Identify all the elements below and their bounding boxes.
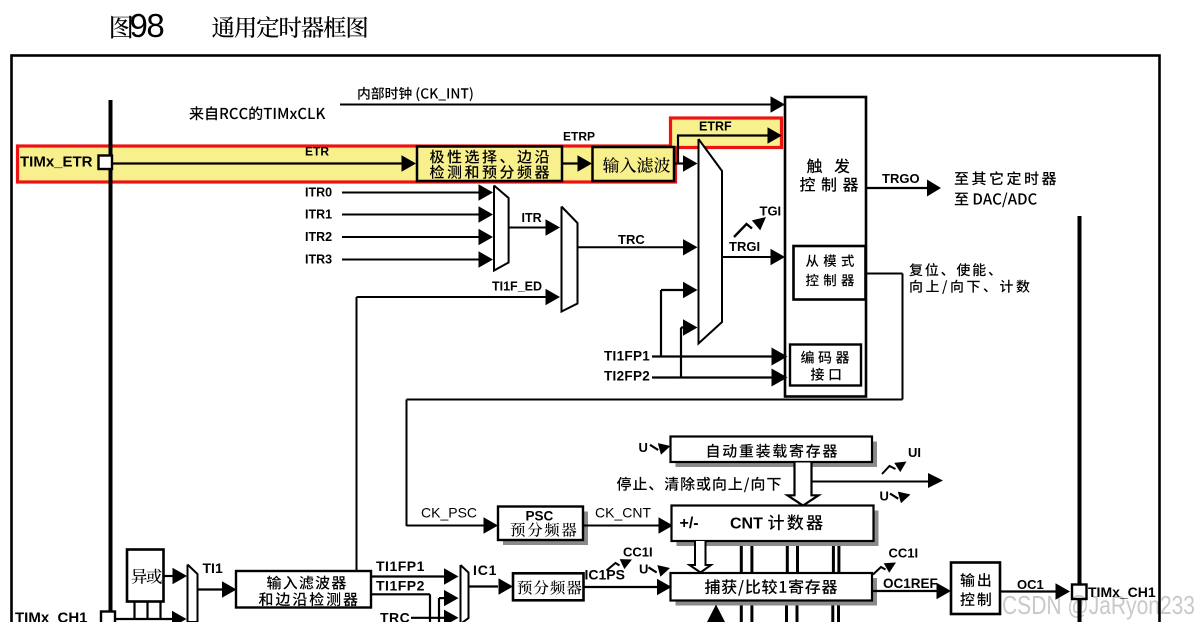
- wire filter output to trigger mux: [674, 162, 684, 164]
- wire IC1: [469, 585, 499, 587]
- svg-text:IC1PS: IC1PS: [585, 567, 625, 583]
- block CNT counter: [672, 506, 874, 542]
- text 计数器(CNT): [768, 514, 823, 530]
- mux IC1 selector: [461, 565, 469, 622]
- wire ETRP: [562, 162, 580, 164]
- pin pad TIMx_ETR: [99, 156, 113, 170]
- block output control 输出控制: [951, 563, 1000, 615]
- svg-text:TRGO: TRGO: [882, 171, 920, 186]
- svg-text:U: U: [639, 440, 648, 455]
- arrowhead TI2FP2 into trigger mux: [683, 319, 698, 335]
- svg-text:ITR3: ITR3: [305, 253, 332, 267]
- wire IC1PS: [584, 586, 660, 588]
- title 图 (figure): [111, 15, 132, 38]
- block input filter 输入滤波: [593, 147, 675, 181]
- block XOR 异或: [127, 550, 164, 602]
- arrowhead TI1 into input filter: [222, 581, 237, 597]
- svg-text:TI1: TI1: [203, 560, 223, 576]
- arrowhead CK_PSC into PSC: [484, 517, 499, 533]
- label 来自RCC的TIMxCLK (TIMxCLK from RCC): [189, 106, 325, 120]
- block auto-reload register 自动重装载寄存器: [671, 437, 873, 463]
- svg-text:CK_CNT: CK_CNT: [595, 505, 651, 521]
- arrowhead TI1FP1 into encoder interface: [772, 348, 788, 366]
- text 检测和预分频器: [430, 165, 549, 179]
- wire CK_CNT: [583, 525, 660, 527]
- svg-text:ITR2: ITR2: [305, 230, 332, 244]
- block capture/compare 1 register 捕获/比较1寄存器: [671, 573, 873, 601]
- wire feedback vertical left: [406, 400, 408, 527]
- arrowhead TI2FP2 into encoder interface: [772, 369, 788, 387]
- svg-text:PSC: PSC: [526, 509, 554, 524]
- block slave mode controller 从模式控制器: [794, 246, 866, 300]
- arrowhead TI1F_ED into TRC mux: [546, 289, 561, 305]
- wire TI2FP1 into mux: [439, 597, 446, 599]
- svg-text:CC1I: CC1I: [623, 545, 653, 560]
- text 预分频器(IC): [518, 580, 582, 595]
- svg-text:U: U: [880, 489, 889, 504]
- svg-text:CNT: CNT: [730, 515, 763, 532]
- arrowhead ITR1 into ITR mux: [479, 206, 494, 222]
- text 和边沿检测器: [259, 592, 358, 606]
- wire ETR: [112, 162, 403, 164]
- arrowhead ITR2 into ITR mux: [479, 229, 494, 245]
- wire feedback vertical right: [902, 274, 904, 400]
- arrowhead ETR into polarity block: [402, 155, 417, 171]
- wire slave mode output right: [866, 273, 903, 275]
- text 控制器: [800, 177, 858, 192]
- wire OC1REF: [872, 590, 938, 592]
- svg-text:OC1REF: OC1REF: [883, 576, 938, 591]
- wire TI2FP1 up from channel 2: [438, 598, 440, 622]
- wire XOR input stub 1: [133, 602, 135, 620]
- arrowhead OC1 to pin: [1056, 583, 1071, 599]
- wire feedback horizontal: [407, 399, 903, 401]
- bus lines counter to capture/compare: [741, 546, 839, 573]
- svg-text:ETRF: ETRF: [699, 120, 732, 134]
- block encoder interface 编码器接口: [790, 345, 861, 386]
- text 控制(output): [960, 592, 990, 606]
- svg-text:TIMx_CH1: TIMx_CH1: [15, 610, 88, 622]
- wire TI1: [198, 588, 225, 590]
- svg-text:ETRP: ETRP: [563, 130, 595, 144]
- block capture/compare 1 register 捕获/比较1寄存器 shadow: [676, 578, 878, 606]
- right pin bus line: [1078, 216, 1082, 622]
- svg-text:TIMx_ETR: TIMx_ETR: [20, 154, 93, 171]
- arrowhead ITR into TRC mux: [546, 219, 561, 235]
- arrowhead filter output into trigger mux: [683, 155, 698, 171]
- event arrow U right: [890, 489, 912, 504]
- hollow arrow counter to capture/compare: [690, 541, 712, 573]
- arrowhead TRC into IC1 mux: [444, 610, 459, 622]
- wire TI1FP2 branch down: [429, 594, 431, 622]
- arrowhead ITR3 into ITR mux: [479, 251, 494, 267]
- arrowhead TRC into trigger mux: [683, 239, 698, 255]
- arrowhead XOR output into mux: [173, 568, 188, 584]
- block PSC prescaler shadow: [503, 512, 588, 546]
- svg-text:TI1FP2: TI1FP2: [376, 578, 425, 594]
- svg-text:U: U: [639, 562, 648, 577]
- wire ITR3: [342, 259, 480, 261]
- wire TI1FP1 to encoder: [652, 355, 772, 357]
- svg-text:TI1FP1: TI1FP1: [376, 558, 425, 574]
- wire ITR0: [342, 192, 480, 194]
- wire XOR input stub 3: [159, 602, 161, 620]
- wire TI2FP2 branch horizontal: [681, 326, 684, 328]
- wire OC1: [1000, 590, 1057, 592]
- wire TRC: [578, 246, 685, 248]
- wire TI1FP1 branch horizontal: [661, 289, 684, 291]
- svg-text:TI1FP1: TI1FP1: [604, 349, 650, 364]
- arrowhead IC1 into prescaler: [499, 578, 514, 594]
- event arrow U into auto-reload register: [650, 440, 672, 455]
- svg-text:+/-: +/-: [680, 515, 699, 532]
- wire TI1F_ED: [357, 296, 548, 298]
- block polarity selection edge detector prescaler: [417, 147, 562, 182]
- arrowhead IC1PS into capture register: [657, 579, 672, 595]
- bus lines below capture/compare register: [741, 601, 838, 622]
- wire ITR2: [342, 236, 480, 238]
- highlight box around ETRF signal: [671, 118, 782, 148]
- arrowhead ETRF into trigger controller: [768, 127, 783, 143]
- arrowhead ITR0 into ITR mux: [479, 184, 494, 200]
- mux TI1 selector left edge: [187, 565, 189, 622]
- svg-text:TI1F_ED: TI1F_ED: [492, 280, 542, 294]
- text 输入滤波: [603, 157, 670, 173]
- text 接口: [811, 368, 841, 381]
- wire TI2FP2 branch vertical: [680, 328, 682, 378]
- block auto-reload register 自动重装载寄存器 shadow: [676, 442, 878, 468]
- text 极性选择、边沿: [430, 150, 549, 164]
- wire ETRF horizontal: [677, 134, 769, 136]
- svg-text:TRC: TRC: [618, 232, 645, 247]
- wire TI2FP2 to encoder: [652, 376, 772, 378]
- svg-text:ITR1: ITR1: [305, 208, 332, 222]
- text 触发: [807, 158, 850, 173]
- left pin bus line: [109, 100, 113, 622]
- arrowhead TI1FP1 into trigger mux: [683, 282, 698, 298]
- wire TRGO: [866, 187, 928, 189]
- block CNT counter shadow: [677, 511, 879, 547]
- arrowhead TI1FP1 into IC1 mux: [444, 568, 459, 584]
- event arrow U into capture register: [649, 562, 672, 577]
- svg-text:CC1I: CC1I: [889, 546, 919, 561]
- svg-text:ITR: ITR: [522, 211, 542, 225]
- block prescaler 预分频器: [513, 573, 584, 600]
- svg-text:TRGI: TRGI: [729, 239, 760, 254]
- label 至其它定时器 (to other timers): [955, 171, 1056, 185]
- svg-text:TRC: TRC: [380, 609, 410, 622]
- mux TRC selector: [562, 207, 578, 312]
- arrowhead CK_CNT into CNT counter: [659, 517, 674, 533]
- wire TI1F_ED vertical from input filter block: [356, 297, 358, 571]
- mux TI1 selector: [188, 565, 198, 622]
- text 预分频器(PSC): [511, 522, 577, 537]
- svg-text:CSDN @JaRyon233: CSDN @JaRyon233: [1002, 590, 1195, 620]
- label 至 DAC/ADC (to DAC/ADC): [955, 193, 1037, 208]
- pin pad TIMx_CH1 output: [1072, 585, 1087, 600]
- solid up arrow into capture/compare register: [707, 605, 725, 622]
- wire TRC bottom: [411, 617, 446, 619]
- wire TRGI: [722, 256, 771, 258]
- pin pad TIMx_CH1 input: [101, 612, 115, 622]
- event arrow TGI: [734, 212, 770, 237]
- wire TI1FP2 bottom: [371, 593, 430, 595]
- mux ITR selector: [494, 186, 509, 271]
- label 复位、使能、 (reset enable): [909, 263, 993, 276]
- svg-text:CK_PSC: CK_PSC: [421, 505, 477, 521]
- wire ITR1: [342, 214, 480, 216]
- label 停止、清除或向上/向下 (stop clear up/down): [617, 477, 781, 493]
- mux IC1 selector left edge: [460, 565, 462, 622]
- arrowhead ETRP into input filter: [578, 155, 593, 171]
- wire CK_PSC: [407, 525, 486, 527]
- arrowhead TI2FP1 into IC1 mux: [444, 590, 459, 606]
- svg-text:ITR0: ITR0: [305, 186, 332, 200]
- arrowhead TRGI into trigger controller: [771, 249, 786, 265]
- event arrow CC1I right: [873, 558, 899, 575]
- svg-text:UI: UI: [908, 445, 921, 460]
- hollow arrow auto-reload to counter: [788, 463, 819, 506]
- block PSC prescaler: [498, 507, 583, 541]
- title 通用定时器框图 (general purpose timer block diagram): [212, 16, 367, 38]
- text 编码器: [801, 351, 849, 364]
- text 控制器(slave): [806, 274, 854, 287]
- wire TI1FP1 bottom: [371, 575, 446, 577]
- svg-text:ETR: ETR: [305, 145, 329, 159]
- block trigger controller 触发控制器: [785, 97, 866, 397]
- label 向上/向下、计数 (up/down count): [910, 280, 1029, 294]
- wire ITR to TRC mux: [509, 227, 547, 229]
- event arrow UI: [882, 457, 909, 474]
- wire update event UI: [811, 481, 929, 483]
- highlight band around TIMx_ETR external trigger path: [18, 146, 676, 182]
- svg-text:IC1: IC1: [473, 562, 497, 578]
- arrowhead TIMx_CH1 into XOR mux: [172, 611, 187, 622]
- label 内部时钟 (CK_INT) internal clock: [358, 87, 472, 101]
- svg-text:98: 98: [130, 7, 164, 44]
- text 自动重装载寄存器: [708, 444, 837, 458]
- event arrow CC1I left: [607, 555, 635, 571]
- text 异或 (XOR): [132, 569, 162, 584]
- wire TI1FP1 branch vertical: [660, 290, 662, 357]
- arrowhead OC1REF into output control: [937, 583, 952, 599]
- text 从模式: [806, 254, 854, 267]
- wire XOR output: [164, 575, 174, 577]
- svg-text:TGI: TGI: [760, 204, 782, 219]
- text 输入滤波器: [267, 576, 346, 590]
- wire XOR input stub 2: [146, 602, 148, 620]
- arrowhead update event right: [928, 473, 943, 488]
- text 输出: [961, 573, 991, 587]
- mux trigger TRGI selector: [699, 139, 723, 344]
- arrowhead CK_INT into trigger controller: [771, 96, 786, 112]
- wire CK_INT internal clock: [340, 104, 772, 106]
- wire TIMx_CH1 input: [114, 618, 174, 620]
- arrowhead TRGO: [927, 180, 941, 197]
- block input filter edge detector 输入滤波器和边沿检测器: [236, 571, 371, 608]
- wire ETRF vertical branch: [677, 136, 679, 164]
- text 捕获/比较1寄存器: [705, 579, 837, 596]
- svg-text:TI2FP2: TI2FP2: [604, 369, 650, 384]
